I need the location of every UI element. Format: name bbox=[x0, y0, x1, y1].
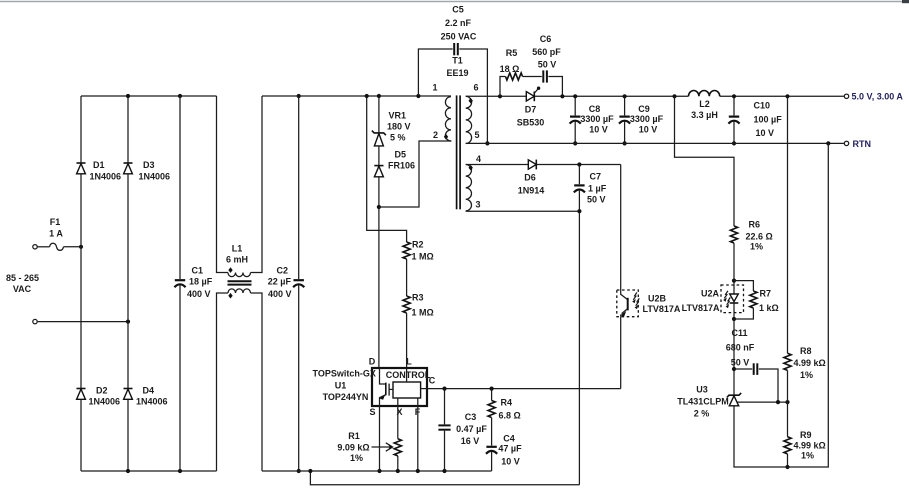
terminal 5V output bbox=[844, 94, 848, 98]
wire fuse lead left bbox=[38, 246, 50, 248]
wire bridge second vertical bbox=[127, 96, 129, 471]
svg-text:4: 4 bbox=[476, 154, 481, 164]
svg-text:22.6 Ω: 22.6 Ω bbox=[746, 231, 773, 241]
svg-text:50 V: 50 V bbox=[538, 59, 557, 69]
junction C2 bottom bbox=[297, 469, 301, 473]
wire bottom return bus left segment bbox=[81, 470, 217, 472]
resistor R3 bbox=[403, 293, 434, 318]
capacitor C9 bbox=[619, 96, 664, 143]
svg-text:TOP244YN: TOP244YN bbox=[323, 392, 369, 402]
svg-text:6 mH: 6 mH bbox=[226, 255, 248, 265]
svg-text:F1: F1 bbox=[50, 217, 61, 227]
junction C2 top bbox=[297, 94, 301, 98]
svg-text:1 kΩ: 1 kΩ bbox=[759, 303, 779, 313]
resistor R6 bbox=[730, 220, 772, 252]
svg-text:D5: D5 bbox=[395, 149, 407, 159]
svg-text:18 µF: 18 µF bbox=[189, 277, 213, 287]
svg-text:10 V: 10 V bbox=[639, 124, 658, 134]
diode D1 bbox=[77, 160, 122, 181]
wire bottom return bus right segment bbox=[262, 470, 492, 472]
diode D4 bbox=[124, 385, 168, 406]
svg-text:5: 5 bbox=[474, 130, 479, 140]
svg-text:R3: R3 bbox=[412, 293, 424, 303]
svg-text:1N914: 1N914 bbox=[518, 185, 545, 195]
svg-text:1N4006: 1N4006 bbox=[139, 171, 171, 181]
U1 control block bbox=[393, 382, 421, 398]
svg-text:1 MΩ: 1 MΩ bbox=[412, 308, 434, 318]
wire U2B emitter to C pin line bbox=[620, 317, 622, 389]
svg-text:R7: R7 bbox=[760, 289, 772, 299]
junction C11 tap bbox=[732, 367, 736, 371]
svg-text:R4: R4 bbox=[501, 397, 513, 407]
svg-text:9.09 kΩ: 9.09 kΩ bbox=[337, 442, 369, 452]
opto transistor U2B bbox=[617, 290, 681, 317]
junction S at bus bbox=[377, 469, 381, 473]
junction C9 top bbox=[623, 94, 627, 98]
input terminal bottom bbox=[33, 319, 37, 323]
svg-text:C10: C10 bbox=[754, 100, 771, 110]
svg-text:R8: R8 bbox=[800, 346, 812, 356]
wire feedback tap to R6 bbox=[675, 96, 735, 226]
fuse F1 bbox=[50, 243, 64, 250]
capacitor C1 bbox=[174, 96, 212, 471]
svg-text:5 %: 5 % bbox=[390, 133, 406, 143]
svg-text:6.8 Ω: 6.8 Ω bbox=[499, 410, 521, 420]
svg-text:L1: L1 bbox=[232, 244, 243, 254]
svg-text:R6: R6 bbox=[749, 220, 761, 230]
svg-text:CONTROL: CONTROL bbox=[386, 370, 431, 380]
wire R2 to R3 bbox=[406, 259, 408, 296]
capacitor C5 Y-cap bbox=[418, 5, 487, 144]
capacitor C10 bbox=[728, 96, 782, 143]
svg-text:1%: 1% bbox=[350, 453, 363, 463]
zener VR1 bbox=[372, 111, 411, 146]
svg-text:R1: R1 bbox=[348, 431, 360, 441]
svg-text:3.3 µH: 3.3 µH bbox=[691, 110, 718, 120]
junction VR1 at bus bbox=[377, 94, 381, 98]
junction snubber left bbox=[498, 94, 502, 98]
wire divider upper bbox=[787, 96, 789, 353]
svg-text:1N4006: 1N4006 bbox=[136, 397, 168, 407]
svg-text:R9: R9 bbox=[800, 430, 812, 440]
svg-text:18 Ω: 18 Ω bbox=[500, 64, 520, 74]
junction C9 bottom bbox=[623, 141, 627, 145]
annotation arrow to R1 bbox=[372, 446, 392, 448]
svg-text:U3: U3 bbox=[696, 385, 708, 395]
terminal RTN bbox=[844, 141, 848, 145]
svg-text:D1: D1 bbox=[93, 160, 105, 170]
svg-text:680 nF: 680 nF bbox=[726, 342, 755, 352]
svg-text:C6: C6 bbox=[540, 34, 552, 44]
resistor R9 bbox=[784, 430, 826, 461]
junction C3 at bus bbox=[442, 469, 446, 473]
wire clamp return to pin 2 bbox=[379, 141, 452, 207]
resistor R1 bbox=[337, 431, 401, 463]
svg-text:2: 2 bbox=[433, 130, 438, 140]
svg-text:10 V: 10 V bbox=[756, 128, 775, 138]
wire TL431 ref line bbox=[737, 401, 788, 403]
svg-text:D2: D2 bbox=[96, 385, 108, 395]
wire X pin down bbox=[397, 398, 399, 439]
U1 internal MOSFET bbox=[379, 368, 393, 406]
svg-text:50 V: 50 V bbox=[587, 195, 606, 205]
diode D3 bbox=[124, 160, 171, 181]
svg-text:400 V: 400 V bbox=[268, 289, 292, 299]
svg-text:D6: D6 bbox=[524, 172, 536, 182]
resistor R2 bbox=[403, 240, 434, 262]
shunt regulator U3 TL431 bbox=[677, 385, 741, 419]
svg-text:1%: 1% bbox=[800, 370, 813, 380]
svg-text:5.0 V, 3.00 A: 5.0 V, 3.00 A bbox=[852, 92, 904, 102]
svg-text:1 µF: 1 µF bbox=[588, 183, 607, 193]
junction snubber right bbox=[560, 94, 564, 98]
T1 primary polarity dot bbox=[444, 134, 448, 140]
junction R4 at C line bbox=[490, 387, 494, 391]
wire R9 bottom bbox=[787, 454, 789, 467]
wire bridge left vertical bbox=[80, 96, 82, 471]
junction divider top bbox=[785, 94, 789, 98]
capacitor C3 bbox=[438, 389, 487, 471]
junction C5 at bus bbox=[416, 94, 420, 98]
svg-text:R5: R5 bbox=[506, 48, 518, 58]
wire bias pin4 line bbox=[466, 164, 621, 166]
junction D4 bottom bbox=[126, 469, 130, 473]
svg-text:C5: C5 bbox=[452, 5, 464, 15]
junction U2A bottom bbox=[732, 317, 736, 321]
wire F pin to bus bbox=[417, 398, 419, 471]
svg-text:L2: L2 bbox=[699, 99, 710, 109]
svg-text:50 V: 50 V bbox=[731, 357, 750, 367]
junction neutral to bridge bbox=[126, 320, 130, 324]
svg-text:R2: R2 bbox=[412, 240, 424, 250]
svg-text:6: 6 bbox=[473, 83, 478, 93]
svg-text:D4: D4 bbox=[143, 385, 155, 395]
wire bias pin3 line bbox=[466, 210, 580, 212]
junction C10 bottom bbox=[732, 141, 736, 145]
svg-text:560 pF: 560 pF bbox=[532, 47, 561, 57]
svg-text:3300 µF: 3300 µF bbox=[630, 114, 664, 124]
svg-text:LTV817A: LTV817A bbox=[643, 304, 681, 314]
capacitor C7 bbox=[574, 165, 607, 485]
svg-text:VR1: VR1 bbox=[389, 111, 407, 121]
wire R8 to ref node bbox=[787, 370, 789, 436]
wire L pin inside box bbox=[406, 368, 408, 382]
T1 secondary winding bbox=[466, 96, 472, 143]
wire D6 node to U2B collector bbox=[620, 165, 622, 291]
junction C7 top bbox=[577, 162, 581, 166]
wire VR1 to D5 bbox=[378, 146, 380, 166]
wire R3 to L pin bbox=[406, 313, 408, 382]
junction U2A top bbox=[732, 279, 736, 283]
junction C10 top bbox=[732, 94, 736, 98]
opto LED U2A bbox=[682, 281, 744, 319]
junction RTN drop bbox=[826, 141, 830, 145]
diode D5 bbox=[374, 149, 415, 177]
svg-text:D7: D7 bbox=[525, 105, 537, 115]
wire bus to VR1 bbox=[378, 96, 380, 133]
wire 5V output line left of L2 bbox=[466, 95, 689, 97]
svg-text:C9: C9 bbox=[638, 104, 650, 114]
wire HV+ top bus left segment bbox=[81, 95, 217, 97]
svg-text:1%: 1% bbox=[801, 451, 814, 461]
junction pin3 at C7 bbox=[577, 209, 581, 213]
T1 primary winding bbox=[445, 97, 451, 141]
svg-text:3: 3 bbox=[475, 200, 480, 210]
svg-text:TL431CLPM: TL431CLPM bbox=[677, 396, 729, 406]
wire TL431 anode to RTN bbox=[734, 143, 828, 467]
svg-text:1 A: 1 A bbox=[49, 229, 63, 239]
op-amp U1 TOPSwitch-GX body bbox=[372, 368, 427, 406]
svg-text:EE19: EE19 bbox=[446, 68, 468, 78]
svg-text:1 MΩ: 1 MΩ bbox=[412, 252, 434, 262]
svg-text:D3: D3 bbox=[143, 160, 155, 170]
T1 bias winding bbox=[466, 165, 472, 211]
junction R9 at anode line bbox=[785, 465, 789, 469]
resistor R4 bbox=[488, 389, 521, 421]
svg-text:FR106: FR106 bbox=[388, 161, 415, 171]
svg-text:U2B: U2B bbox=[648, 293, 667, 303]
junction D3 top bbox=[126, 94, 130, 98]
junction F at bus bbox=[416, 469, 420, 473]
diode D2 bbox=[77, 385, 121, 406]
junction bias return at bus bbox=[308, 469, 312, 473]
input terminal top bbox=[33, 245, 37, 249]
svg-text:C7: C7 bbox=[590, 172, 602, 182]
svg-text:4.99 kΩ: 4.99 kΩ bbox=[794, 358, 826, 368]
wire drain line D5 to U1 D pin bbox=[378, 177, 380, 368]
wire R1 to bus bbox=[397, 456, 399, 471]
svg-text:SB530: SB530 bbox=[517, 117, 545, 127]
common-mode choke L1 bbox=[217, 96, 263, 471]
svg-text:D: D bbox=[369, 357, 376, 367]
svg-text:L: L bbox=[406, 357, 412, 367]
junction C11 at ref bbox=[776, 400, 780, 404]
junction fuse to bridge bbox=[79, 245, 83, 249]
svg-text:1%: 1% bbox=[750, 242, 763, 252]
svg-text:0.47 µF: 0.47 µF bbox=[456, 424, 487, 434]
svg-text:U1: U1 bbox=[335, 381, 347, 391]
svg-text:U2A: U2A bbox=[701, 288, 720, 298]
diode D7 bbox=[517, 87, 545, 128]
wire HV+ top bus right segment bbox=[262, 95, 451, 97]
svg-text:LTV817A: LTV817A bbox=[682, 303, 720, 313]
svg-text:10 V: 10 V bbox=[589, 124, 608, 134]
wire fuse lead right bbox=[64, 246, 82, 248]
svg-text:2.2 nF: 2.2 nF bbox=[445, 18, 472, 28]
junction C8 bottom bbox=[573, 141, 577, 145]
svg-text:1: 1 bbox=[432, 83, 437, 93]
svg-text:2 %: 2 % bbox=[694, 409, 710, 419]
capacitor C2 bbox=[268, 96, 305, 471]
svg-text:C2: C2 bbox=[276, 266, 288, 276]
svg-text:16 V: 16 V bbox=[461, 436, 480, 446]
svg-text:22 µF: 22 µF bbox=[268, 277, 292, 287]
svg-text:VAC: VAC bbox=[13, 284, 32, 294]
junction C5 at RTN bbox=[485, 141, 489, 145]
junction line-sense at bus bbox=[365, 94, 369, 98]
svg-text:10 V: 10 V bbox=[501, 456, 520, 466]
svg-text:4.99 kΩ: 4.99 kΩ bbox=[794, 440, 826, 450]
svg-text:C1: C1 bbox=[192, 266, 204, 276]
wire bias return to primary ground bbox=[310, 471, 579, 485]
svg-text:C: C bbox=[429, 376, 436, 386]
svg-text:250 VAC: 250 VAC bbox=[441, 32, 477, 42]
svg-text:1N4006: 1N4006 bbox=[89, 397, 121, 407]
svg-text:TOPSwitch-GX: TOPSwitch-GX bbox=[313, 369, 376, 379]
svg-text:400 V: 400 V bbox=[187, 289, 211, 299]
wire R6 to U2A bbox=[733, 243, 735, 281]
window top border bbox=[0, 1, 909, 3]
svg-text:T1: T1 bbox=[452, 56, 463, 66]
wire C pin line bbox=[421, 388, 427, 390]
svg-text:C11: C11 bbox=[731, 328, 747, 338]
svg-text:C4: C4 bbox=[503, 433, 515, 443]
T1 bias polarity dot bbox=[469, 165, 473, 171]
capacitor C4 bbox=[486, 418, 522, 471]
T1 secondary polarity dot bbox=[469, 98, 473, 104]
svg-text:C3: C3 bbox=[465, 412, 477, 422]
diode D6 bbox=[518, 160, 545, 196]
svg-text:47 µF: 47 µF bbox=[498, 444, 522, 454]
junction C8 top bbox=[573, 94, 577, 98]
svg-text:3300 µF: 3300 µF bbox=[580, 114, 614, 124]
svg-text:RTN: RTN bbox=[853, 139, 872, 149]
junction ref at divider bbox=[785, 400, 789, 404]
capacitor C8 bbox=[570, 96, 614, 143]
wire S pin to return bus bbox=[379, 406, 381, 471]
svg-text:1N4006: 1N4006 bbox=[90, 171, 122, 181]
svg-text:100 µF: 100 µF bbox=[754, 114, 783, 124]
svg-text:85 - 265: 85 - 265 bbox=[6, 273, 39, 283]
transformer T1 core bbox=[456, 95, 458, 209]
junction clamp return bbox=[377, 205, 381, 209]
inductor L2 bbox=[689, 90, 720, 119]
snubber R5 bbox=[500, 48, 523, 96]
svg-text:C8: C8 bbox=[589, 104, 601, 114]
junction R1 at bus bbox=[396, 469, 400, 473]
svg-text:S: S bbox=[369, 407, 375, 417]
wire neutral input bbox=[38, 321, 128, 323]
wire 5V output line right of L2 bbox=[720, 95, 844, 97]
wire U2A to TL431 bbox=[733, 319, 735, 395]
resistor R8 bbox=[784, 346, 826, 380]
wire RTN line bbox=[466, 142, 844, 144]
junction C1 top bbox=[178, 94, 182, 98]
capacitor C11 bbox=[726, 328, 778, 402]
snubber capacitor C6 bbox=[523, 34, 563, 96]
resistor R7 bbox=[734, 281, 779, 319]
svg-text:180 V: 180 V bbox=[387, 122, 411, 132]
junction feedback tap bbox=[672, 94, 676, 98]
junction C3 at C line bbox=[442, 387, 446, 391]
wire line-sense feed to R2 bbox=[367, 96, 407, 242]
junction C1 bottom bbox=[178, 469, 182, 473]
